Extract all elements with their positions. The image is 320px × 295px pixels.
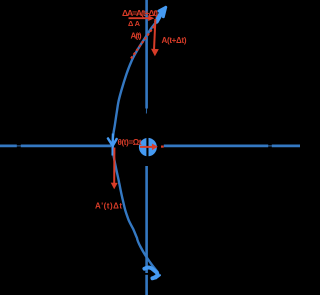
arc bottom arrowhead swoosh — [144, 267, 157, 278]
x-axis left segment — [0, 144, 17, 147]
x-axis main left segment — [21, 144, 112, 147]
svg-text:θ(t)=Ωt: θ(t)=Ωt — [118, 138, 142, 147]
svg-text:A(t): A(t) — [131, 32, 142, 41]
arc top arrowhead shaft — [157, 10, 164, 22]
red down arrow near top (delta v) — [154, 19, 155, 50]
arc mid arrowhead — [108, 139, 117, 146]
red dashed chord — [131, 24, 156, 59]
y-axis lower segment — [145, 166, 148, 273]
y-axis top segment — [145, 0, 148, 109]
x-axis right segment — [164, 144, 268, 147]
svg-text:ΔA=A(t+Δt): ΔA=A(t+Δt) — [122, 8, 158, 18]
origin red dash remnant — [161, 146, 164, 148]
x-axis far right segment — [272, 144, 300, 147]
red left down arrow — [113, 148, 115, 184]
svg-text:A(t+Δt): A(t+Δt) — [162, 36, 187, 45]
svg-text:ΔA: ΔA — [128, 19, 141, 28]
origin red arrow — [140, 146, 152, 148]
trajectory arc — [113, 21, 158, 273]
x-axis gap bridge right — [267, 145, 274, 147]
arc mid arrow marker shaft — [111, 134, 114, 156]
x-axis gap bridge left — [16, 145, 23, 147]
svg-text:A'(t)Δt: A'(t)Δt — [95, 201, 122, 210]
top horizontal arrow — [129, 17, 151, 19]
y-axis taper — [145, 107, 147, 114]
y-axis bottom segment — [145, 275, 148, 295]
arc top arrowhead barbs — [159, 7, 166, 17]
origin circle slit — [146, 137, 148, 158]
origin circle — [139, 138, 157, 156]
